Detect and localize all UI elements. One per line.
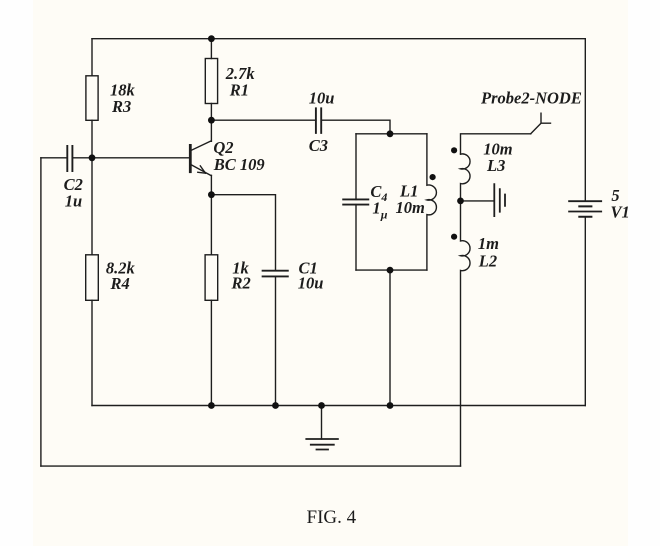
wire L3 top to probe <box>461 134 531 154</box>
svg-text:R2: R2 <box>231 274 251 293</box>
node dot rail C1 <box>272 402 279 409</box>
resistor R1 <box>205 59 217 104</box>
node dot rail ground <box>318 402 325 409</box>
wire right supply (battery top) <box>584 39 586 202</box>
wire top rail <box>92 38 585 40</box>
svg-text:L2: L2 <box>478 252 497 271</box>
svg-text:R3: R3 <box>111 97 131 116</box>
node dot base <box>89 154 96 161</box>
tank bottom wire <box>356 269 427 271</box>
inductor L2 <box>461 201 471 466</box>
node dot tank bottom <box>387 267 394 274</box>
wire tank bottom to ground rail <box>389 270 391 405</box>
wire emitter node down to R2 <box>210 195 212 255</box>
node dot L3/L2 junction <box>457 198 464 205</box>
wire left feedback down <box>40 158 42 466</box>
phasing dot L2 <box>451 234 457 240</box>
node dot collector <box>208 117 215 124</box>
svg-text:R4: R4 <box>110 274 130 293</box>
probe Probe2-NODE <box>531 113 551 134</box>
wire emitter node to C1 <box>211 195 275 271</box>
wire collector to C3 <box>211 119 316 121</box>
svg-text:C3: C3 <box>309 136 328 155</box>
phasing dot L1 <box>430 174 436 180</box>
svg-text:FIG. 4: FIG. 4 <box>307 507 357 528</box>
node dot rail tank <box>387 402 394 409</box>
node dot rail R2 <box>208 402 215 409</box>
wire C3 to tank top <box>321 120 390 134</box>
wire R1 top <box>210 39 212 59</box>
wire R4 bottom <box>91 300 93 405</box>
resistor R4 <box>86 255 99 300</box>
wire ground rail <box>92 405 585 407</box>
ground symbol <box>321 406 323 440</box>
chassis ground (sideways) <box>494 184 505 216</box>
wire mid node to chassis ground <box>461 200 495 202</box>
wire C2 right plate to base node <box>72 157 92 159</box>
svg-text:V1: V1 <box>611 203 630 222</box>
svg-text:10u: 10u <box>298 274 324 293</box>
node dot top rail / R1 <box>208 35 215 42</box>
svg-text:10u: 10u <box>309 89 335 108</box>
wire R3 bottom to base node <box>91 120 93 158</box>
svg-text:10m: 10m <box>396 198 426 217</box>
transistor Q2 <box>190 120 211 195</box>
wire bottom feedback <box>41 465 461 467</box>
wire C2 left <box>41 157 67 159</box>
battery V1 <box>569 201 601 211</box>
wire base node to Q2 base <box>92 157 189 159</box>
wire R1 bottom to collector node <box>210 104 212 121</box>
capacitor C2 <box>67 146 72 171</box>
node dot emitter <box>208 191 215 198</box>
svg-text:BC 109: BC 109 <box>213 155 265 174</box>
resistor R2 <box>205 255 218 300</box>
capacitor C3 <box>316 108 321 133</box>
svg-text:1m: 1m <box>478 234 499 253</box>
wire R3 top <box>91 39 93 76</box>
tank top wire <box>356 133 427 135</box>
wire tank left / C4 leads <box>355 134 357 270</box>
phasing dot L3 <box>451 147 457 153</box>
capacitor C1 <box>263 271 288 277</box>
wire R4 top <box>91 158 93 255</box>
inductor L1 <box>427 134 437 270</box>
svg-text:R1: R1 <box>229 80 249 99</box>
resistor R3 <box>86 76 98 121</box>
capacitor C4 <box>343 199 368 204</box>
inductor L3 <box>461 154 471 201</box>
svg-text:Probe2-NODE: Probe2-NODE <box>480 88 582 107</box>
svg-text:1u: 1u <box>65 191 82 210</box>
node dot tank top <box>387 130 394 137</box>
wire R2 bottom <box>210 300 212 405</box>
svg-text:L3: L3 <box>486 156 505 175</box>
wire C1 bottom <box>275 276 277 405</box>
wire battery bottom to ground rail <box>584 217 586 406</box>
